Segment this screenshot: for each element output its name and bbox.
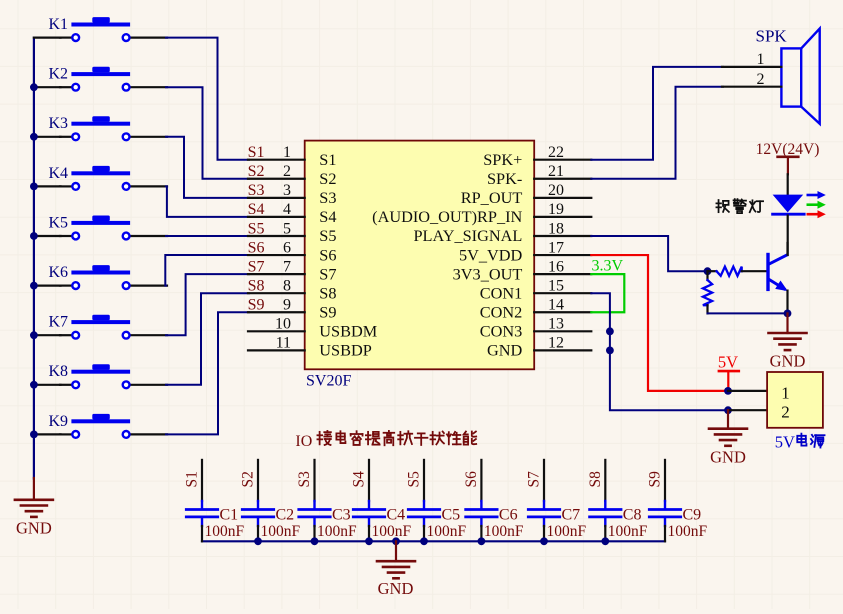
svg-text:S8: S8 (319, 283, 336, 302)
svg-text:S6: S6 (319, 245, 336, 264)
svg-text:16: 16 (548, 258, 564, 275)
pin 2 S2 (left) (248, 163, 337, 188)
wire emitter to pulldown bottom (708, 312, 788, 314)
wire K5 left terminal to ground bus (34, 235, 61, 237)
svg-text:K8: K8 (49, 363, 69, 380)
svg-text:S1: S1 (248, 144, 265, 161)
svg-text:100nF: 100nF (547, 523, 587, 540)
svg-text:K9: K9 (49, 413, 69, 430)
svg-text:S7: S7 (319, 264, 336, 283)
capacitor C1 (186, 460, 217, 541)
svg-text:8: 8 (283, 277, 291, 294)
svg-text:USBDP: USBDP (319, 341, 372, 360)
svg-text:3: 3 (283, 182, 291, 199)
resistor R1 (base, horizontal) (708, 267, 767, 276)
svg-text:USBDM: USBDM (319, 322, 377, 341)
wire capacitor ground bus (202, 540, 665, 542)
svg-text:S4: S4 (319, 207, 336, 226)
junction on ground bus at K9 (30, 431, 38, 439)
ground GND (button ladder) (15, 478, 53, 538)
switch K7 (49, 314, 168, 339)
svg-text:15: 15 (548, 277, 564, 294)
LED D1 (alarm lamp) (773, 195, 805, 215)
pin 1 S1 (left) (248, 144, 337, 169)
svg-text:S3: S3 (296, 471, 313, 488)
svg-text:S8: S8 (587, 471, 604, 488)
junction ground stem on bus (392, 537, 400, 545)
wire LED cathode to transistor collector (787, 216, 789, 256)
wire 12V to LED anode (787, 174, 789, 195)
junction C2 on ground bus (254, 537, 262, 545)
svg-text:3.3V: 3.3V (592, 258, 624, 275)
pin 20 RP_OUT (right) (461, 182, 592, 207)
svg-text:(AUDIO_OUT)RP_IN: (AUDIO_OUT)RP_IN (372, 207, 522, 226)
wire K7 left terminal to ground bus (34, 334, 61, 336)
pin 14 CON2 (right) (480, 297, 592, 322)
op-amp / IC U1 SV20F body (305, 141, 535, 370)
svg-text:14: 14 (548, 297, 564, 314)
svg-text:S7: S7 (526, 471, 543, 488)
junction emitter/ground (784, 310, 792, 318)
svg-text:3V3_OUT: 3V3_OUT (453, 264, 523, 283)
svg-text:S2: S2 (319, 169, 336, 188)
switch K5 (49, 214, 168, 239)
svg-text:S6: S6 (248, 239, 265, 256)
svg-text:11: 11 (276, 335, 291, 352)
speaker SPK (756, 27, 820, 124)
junction C5 on ground bus (420, 537, 428, 545)
junction C3 on ground bus (311, 537, 319, 545)
switch K1 (49, 16, 168, 41)
svg-text:SPK-: SPK- (487, 169, 522, 188)
pin 5 S5 (left) (248, 220, 337, 245)
svg-text:S5: S5 (319, 226, 336, 245)
junction C8 on ground bus (601, 537, 609, 545)
svg-text:100nF: 100nF (261, 523, 301, 540)
junction on ground bus at K3 (30, 133, 38, 141)
svg-text:C4: C4 (387, 506, 406, 523)
svg-text:C1: C1 (220, 506, 239, 523)
svg-text:S5: S5 (248, 220, 265, 237)
svg-text:C7: C7 (562, 506, 581, 523)
svg-text:100nF: 100nF (427, 523, 467, 540)
svg-text:K1: K1 (49, 16, 69, 33)
svg-text:K4: K4 (49, 165, 69, 182)
wire 5V_VDD pin17 to 5V node (red) (591, 255, 727, 391)
svg-text:CON1: CON1 (480, 283, 523, 302)
wire K3 left terminal to ground bus (34, 136, 61, 138)
wire K8 left terminal to ground bus (34, 384, 61, 386)
svg-text:GND: GND (378, 579, 414, 598)
svg-text:S3: S3 (319, 188, 336, 207)
junction on ground bus at K2 (30, 83, 38, 91)
wire K7 to pin S7 (166, 274, 249, 335)
wire K9 left terminal to ground bus (34, 433, 61, 435)
junction on ground bus at K6 (30, 282, 38, 290)
svg-text:S8: S8 (248, 277, 265, 294)
wire K6 to pin S6 (165, 255, 249, 286)
switch K9 (49, 413, 168, 438)
wire K2 left terminal to ground bus (34, 86, 61, 88)
svg-text:100nF: 100nF (608, 523, 648, 540)
wire CON1/CON3/GND vertical to connector pin2 (591, 293, 727, 410)
junction GND pin12 (606, 347, 614, 355)
label alarm lamp (Chinese) (716, 199, 763, 213)
svg-text:9: 9 (283, 297, 291, 314)
svg-text:17: 17 (548, 239, 564, 256)
svg-text:S7: S7 (248, 258, 265, 275)
svg-text:S1: S1 (319, 150, 336, 169)
pin 3 S3 (left) (248, 182, 337, 207)
wire ground node to connector pin2 (728, 409, 767, 411)
pin 12 GND (right) (487, 335, 591, 360)
svg-text:CON3: CON3 (480, 322, 523, 341)
svg-text:100nF: 100nF (205, 523, 245, 540)
capacitor C9 (649, 460, 680, 541)
svg-text:SV20F: SV20F (306, 373, 351, 390)
svg-text:100nF: 100nF (372, 523, 412, 540)
svg-text:K7: K7 (49, 314, 69, 331)
pin 21 SPK- (right) (487, 163, 591, 188)
svg-text:C5: C5 (442, 506, 461, 523)
pin 15 CON1 (right) (480, 277, 592, 302)
svg-text:K2: K2 (49, 66, 69, 83)
svg-text:GND: GND (770, 352, 806, 371)
wire K6 left terminal to ground bus (34, 285, 61, 287)
note IO decoupling (Chinese) (295, 431, 476, 450)
capacitor C7 (528, 460, 559, 541)
svg-text:4: 4 (283, 201, 291, 218)
junction on ground bus at K8 (30, 381, 38, 389)
svg-text:S5: S5 (406, 471, 423, 488)
svg-text:S1: S1 (184, 471, 201, 487)
ground GND (connector) (709, 410, 747, 466)
wire K4 left terminal to ground bus (34, 185, 61, 187)
svg-text:K3: K3 (49, 115, 69, 132)
junction CON3 (606, 327, 614, 335)
switch K8 (49, 363, 168, 388)
pin 7 S7 (left) (248, 258, 337, 283)
svg-text:SPK: SPK (756, 27, 788, 46)
wire 3V3_OUT pin16 to CON2 pin14 (green) (591, 274, 624, 312)
junction ground node at connector pin2 (724, 406, 732, 414)
svg-text:C9: C9 (683, 506, 702, 523)
svg-text:C6: C6 (499, 506, 518, 523)
svg-text:1: 1 (283, 144, 291, 161)
switch K2 (49, 66, 168, 91)
svg-text:S2: S2 (240, 471, 257, 487)
switch K3 (49, 115, 168, 140)
wire emitter down (786, 291, 788, 314)
svg-text:S4: S4 (248, 201, 265, 218)
ground GND (transistor emitter) (769, 313, 807, 370)
pin 8 S8 (left) (248, 277, 337, 302)
svg-text:GND: GND (16, 519, 52, 538)
svg-text:7: 7 (283, 258, 291, 275)
pin 13 CON3 (right) (480, 316, 592, 341)
svg-text:5V: 5V (775, 432, 795, 451)
pin 18 PLAY_SIGNAL (right) (413, 220, 591, 245)
svg-text:5: 5 (283, 220, 291, 237)
junction C6 on ground bus (478, 537, 486, 545)
svg-text:18: 18 (548, 220, 564, 237)
svg-text:1: 1 (781, 383, 790, 402)
power 12V(24V) (756, 141, 820, 174)
wire K9 to pin S9 (166, 312, 249, 434)
svg-text:S4: S4 (351, 471, 368, 488)
pin 10 USBDM (left) (248, 316, 377, 341)
speaker pin 2 (722, 71, 781, 88)
connector J1 5V power (767, 372, 823, 428)
svg-text:S2: S2 (248, 163, 265, 180)
pin 17 5V_VDD (right) (459, 239, 591, 264)
pin 16 3V3_OUT (right) (453, 258, 592, 283)
junction on ground bus at K5 (30, 232, 38, 240)
svg-text:21: 21 (548, 163, 564, 180)
wire K3 to pin S3 (166, 137, 249, 198)
svg-text:SPK+: SPK+ (483, 150, 522, 169)
capacitor C6 (466, 460, 497, 541)
junction base node (704, 267, 712, 275)
ground GND (capacitor bus) (377, 541, 415, 598)
capacitor C8 (590, 460, 621, 541)
wire 5V node to connector pin1 (728, 390, 767, 392)
wire K8 to pin S8 (166, 293, 249, 385)
LED emission arrow red (807, 210, 826, 218)
LED emission arrow blue (807, 191, 826, 199)
svg-text:S9: S9 (248, 297, 265, 314)
svg-text:20: 20 (548, 182, 564, 199)
pin 9 S9 (left) (248, 297, 337, 322)
wire K5 to pin S5 (166, 235, 249, 237)
svg-text:GND: GND (710, 448, 746, 467)
wire SPK+ pin22 to speaker pin1 (591, 67, 723, 160)
svg-text:5V_VDD: 5V_VDD (459, 245, 523, 264)
wire K4 to pin S4 (166, 186, 249, 217)
svg-text:PLAY_SIGNAL: PLAY_SIGNAL (413, 226, 522, 245)
switch K4 (49, 165, 168, 190)
svg-text:6: 6 (283, 239, 291, 256)
junction C4 on ground bus (365, 537, 373, 545)
svg-text:13: 13 (548, 316, 564, 333)
svg-text:GND: GND (487, 341, 523, 360)
svg-text:K6: K6 (49, 264, 69, 281)
svg-text:IO: IO (295, 433, 312, 450)
power 5V (718, 352, 739, 390)
pin 6 S6 (left) (248, 239, 337, 264)
junction C7 on ground bus (540, 537, 548, 545)
svg-text:S6: S6 (463, 471, 480, 488)
junction 5V node (724, 387, 732, 395)
capacitor C3 (299, 460, 330, 541)
switch K6 (49, 264, 168, 289)
label 5V power supply (Chinese) (775, 432, 825, 451)
speaker pin 1 (722, 51, 781, 68)
svg-text:2: 2 (757, 71, 765, 88)
capacitor C4 (353, 460, 384, 541)
svg-text:10: 10 (275, 316, 291, 333)
svg-text:C2: C2 (276, 506, 295, 523)
pin 19 (AUDIO_OUT)RP_IN (right) (372, 201, 591, 226)
svg-text:100nF: 100nF (317, 523, 357, 540)
svg-text:K5: K5 (49, 214, 69, 231)
wire SPK- pin21 to speaker pin2 (591, 87, 723, 179)
svg-text:RP_OUT: RP_OUT (461, 188, 523, 207)
svg-text:19: 19 (548, 201, 564, 218)
svg-text:2: 2 (283, 163, 291, 180)
wire PLAY_SIGNAL pin18 to base resistor (591, 236, 708, 271)
wire collector up (786, 243, 788, 255)
pin 22 SPK+ (right) (483, 144, 591, 169)
transistor Q1 NPN (768, 255, 788, 292)
wire GND bus vertical left (33, 38, 35, 479)
wire K2 to pin S2 (166, 87, 249, 179)
capacitor C5 (408, 460, 439, 541)
resistor R2 (pulldown, vertical) (703, 271, 712, 313)
pin 11 USBDP (left) (248, 335, 372, 360)
svg-text:100nF: 100nF (484, 523, 524, 540)
svg-text:22: 22 (548, 144, 564, 161)
wire K1 to pin S1 (166, 38, 249, 160)
pin 4 S4 (left) (248, 201, 337, 226)
svg-text:S9: S9 (319, 302, 336, 321)
svg-text:100nF: 100nF (668, 523, 708, 540)
junction on ground bus at K4 (30, 183, 38, 191)
svg-text:CON2: CON2 (480, 302, 523, 321)
svg-text:C8: C8 (623, 506, 642, 523)
svg-text:C3: C3 (332, 506, 351, 523)
svg-text:2: 2 (781, 403, 790, 422)
svg-text:5V: 5V (718, 352, 738, 371)
svg-text:12: 12 (548, 335, 564, 352)
capacitor C2 (242, 460, 273, 541)
svg-text:1: 1 (757, 51, 765, 68)
svg-text:S9: S9 (647, 471, 664, 488)
wire K1 left terminal to ground bus (34, 36, 61, 38)
svg-text:S3: S3 (248, 182, 265, 199)
LED emission arrow green (807, 201, 826, 209)
junction on ground bus at K7 (30, 331, 38, 339)
